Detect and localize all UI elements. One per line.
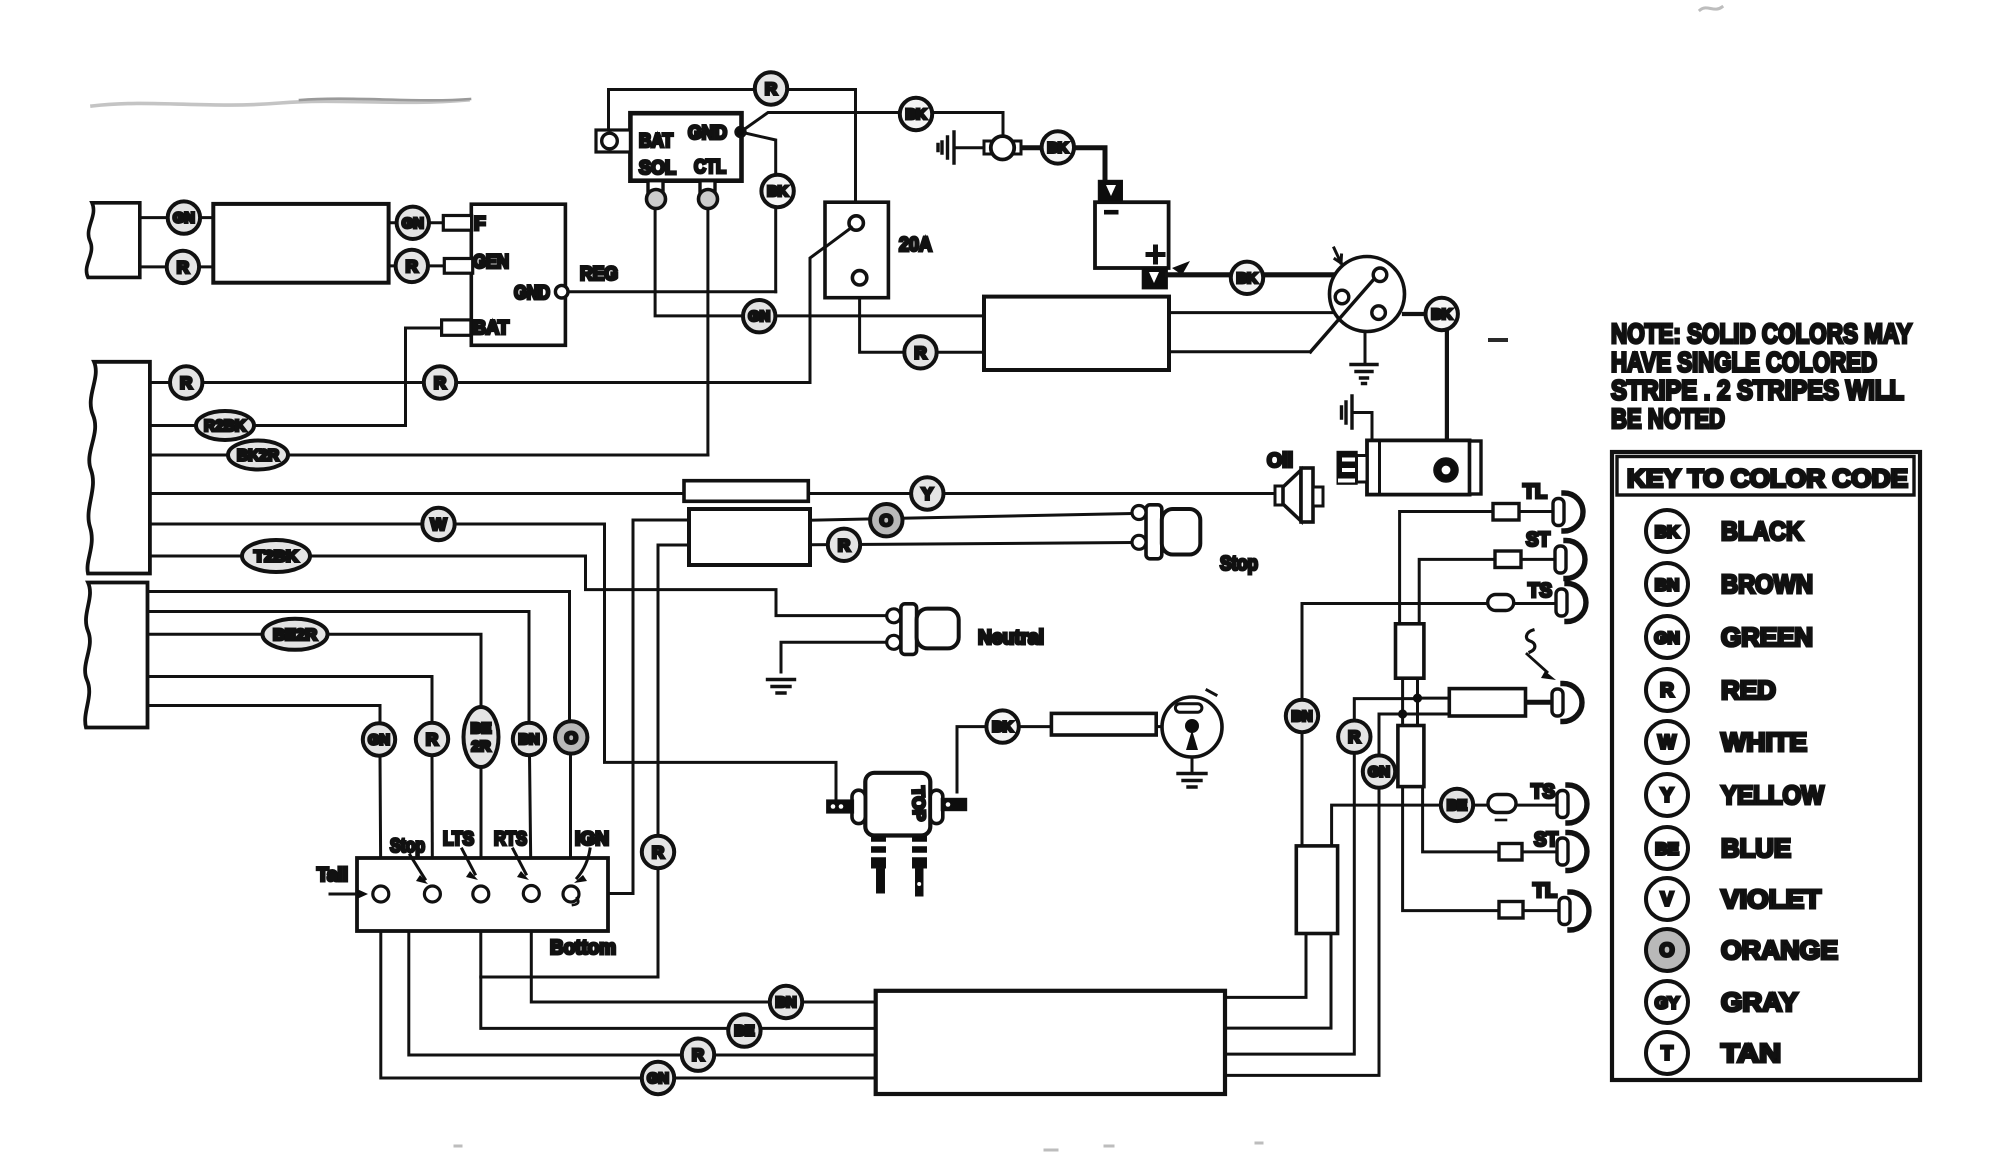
wire TS line from connector C3 top via BN [1302, 604, 1558, 847]
ground under neutral switch [768, 680, 795, 694]
svg-text:R: R [180, 374, 192, 393]
svg-text:BE: BE [471, 720, 492, 737]
svg-text:GND: GND [514, 283, 550, 304]
wire harness box right 3 via R to junction [1225, 699, 1418, 1055]
svg-text:BK2R: BK2R [237, 448, 279, 465]
ground under key switch [1178, 774, 1206, 788]
legend box KEY TO COLOR CODE [1612, 452, 1920, 1080]
wire label R column [416, 723, 448, 755]
inline connector ST top [1495, 551, 1521, 568]
wire label T2BK [242, 540, 310, 572]
svg-text:BN: BN [1292, 709, 1313, 725]
svg-text:BE: BE [1655, 840, 1679, 859]
svg-text:BK: BK [1655, 523, 1680, 542]
wire BE2R feed from connector J2 [148, 634, 482, 708]
legend entry BLUE [1646, 827, 1688, 869]
ground (vertical bars) at starter [1342, 396, 1353, 428]
svg-text:VIOLET: VIOLET [1721, 884, 1821, 914]
wire ignition to ground [1364, 332, 1367, 365]
TOP switch left post [852, 790, 865, 823]
wire label R solenoid loop [755, 72, 787, 104]
wire label BN column [513, 723, 545, 755]
ballast resistor [1051, 713, 1156, 735]
wire GN circle to Tail terminal [379, 756, 383, 887]
svg-text:WHITE: WHITE [1721, 727, 1807, 757]
svg-text:BE: BE [1447, 798, 1467, 814]
svg-text:GY: GY [1655, 994, 1680, 1013]
solenoid SOL stud [648, 181, 663, 194]
svg-text:YELLOW: YELLOW [1721, 780, 1824, 810]
lamp ST bottom [1568, 833, 1587, 871]
wire label GN right [1363, 755, 1395, 787]
regulator GND terminal [555, 285, 568, 298]
svg-text:Oil: Oil [1267, 450, 1293, 472]
svg-text:BN: BN [519, 732, 540, 748]
wire LTS terminal to BE bottom line [481, 902, 876, 1028]
legend entry YELLOW [1646, 774, 1688, 816]
ignition switch terminal 2 [1335, 290, 1349, 304]
arrow at battery positive [1172, 261, 1190, 275]
ignition switch terminal 1 [1373, 268, 1387, 282]
svg-text:NOTE: SOLID COLORS MAY: NOTE: SOLID COLORS MAY [1611, 318, 1912, 349]
generator box [213, 204, 388, 283]
inline connector TL bottom [1499, 902, 1523, 919]
wire horn to ground [954, 146, 990, 149]
legend entry TAN [1646, 1032, 1688, 1074]
wire neutral switch to ground [781, 642, 887, 672]
svg-text:Y: Y [1661, 786, 1674, 807]
svg-text:W: W [1658, 733, 1676, 754]
wire label BE2R column [464, 707, 499, 767]
wire label BK horn [1042, 131, 1074, 163]
svg-text:GN: GN [173, 211, 195, 227]
svg-text:ST: ST [1534, 829, 1558, 851]
svg-text:R: R [434, 374, 446, 393]
terminal IGN [563, 886, 579, 902]
wire label BK2R [228, 441, 288, 470]
wire light switch to stop switch (O) [810, 514, 1131, 521]
svg-text:BK: BK [992, 720, 1013, 736]
wire label BK ignition [1426, 298, 1458, 330]
svg-text:BAT: BAT [639, 131, 673, 152]
svg-text:RTS: RTS [494, 829, 527, 850]
legend entry RED [1646, 669, 1688, 711]
wire starter ground lead [1352, 413, 1372, 441]
wire label R right [1338, 721, 1370, 753]
wire label O lights [870, 504, 902, 536]
svg-text:BE: BE [734, 1024, 754, 1040]
wire R harness line to fuse blade [150, 228, 852, 383]
wire TL line top [1400, 512, 1558, 624]
terminal Tail [373, 886, 389, 902]
svg-text:R: R [177, 258, 189, 277]
starter brush block [1337, 451, 1357, 484]
svg-text:R: R [914, 343, 926, 362]
svg-text:BAT: BAT [473, 318, 509, 339]
lamp horn indicator [1563, 684, 1582, 722]
svg-text:O: O [1660, 941, 1675, 962]
svg-text:R: R [406, 257, 418, 276]
wire battery positive to ignition switch (BK thick) [1167, 272, 1376, 277]
svg-text:T2BK: T2BK [254, 549, 298, 566]
svg-text:BLACK: BLACK [1721, 516, 1803, 546]
starter solenoid box [630, 113, 741, 181]
inline connector TS top [1488, 595, 1514, 611]
flasher unit [1449, 689, 1525, 716]
svg-text:R2BK: R2BK [204, 418, 246, 435]
wire light switch top-left to IGN terminal [580, 520, 689, 894]
junction dot 2 [1398, 709, 1407, 718]
arrow at ignition switch [1334, 248, 1342, 263]
regulator pin BAT pad [442, 320, 471, 335]
wire RTS terminal to BN bottom line [531, 901, 875, 1002]
connector J2 harness plug [85, 583, 147, 728]
ignition switch terminal 3 [1372, 306, 1386, 320]
lamp TL bottom [1570, 892, 1589, 930]
svg-text:KEY TO COLOR CODE: KEY TO COLOR CODE [1627, 465, 1908, 493]
junction dot 1 [1413, 694, 1422, 703]
starter motor body [1367, 440, 1470, 494]
wire label BN bottom [770, 986, 802, 1018]
wire label GN bottom [642, 1062, 674, 1094]
svg-text:BE2R: BE2R [273, 627, 317, 644]
legend entry ORANGE [1646, 929, 1688, 971]
svg-text:O: O [880, 511, 893, 530]
wire Stop terminal to R bottom line [409, 902, 876, 1055]
wire regulator BAT to R2BK [406, 328, 443, 426]
wire label BK reg drop [761, 175, 793, 207]
regulator pin GEN pad [444, 259, 472, 274]
wire BN circle to RTS terminal [530, 755, 532, 886]
wire junction to flasher [1403, 698, 1450, 714]
svg-text:IGN: IGN [575, 829, 609, 850]
svg-text:ORANGE: ORANGE [1721, 935, 1838, 965]
connector C3 [1296, 846, 1337, 934]
wire horn to battery negative (BK thick) [1014, 148, 1105, 181]
wire ballast to key switch [1156, 725, 1162, 728]
wire harness box right 4 via GN to junction [1225, 714, 1403, 1075]
terminal Stop [424, 886, 440, 902]
svg-text:BK: BK [1047, 140, 1068, 156]
svg-text:T: T [1661, 1044, 1673, 1065]
wire flasher to horn lamp [1526, 700, 1556, 705]
TOP switch right post [930, 790, 943, 823]
svg-text:GN: GN [1368, 765, 1390, 781]
wire label GN pigtail [168, 201, 200, 233]
ignition switch body [1330, 257, 1405, 332]
wire solenoid GND to horn (BK) [741, 113, 1004, 138]
wire label R lights [828, 529, 860, 561]
legend entry WHITE [1646, 721, 1688, 763]
svg-text:GN: GN [402, 216, 424, 232]
wire SOL terminal down and GN line to coil box [655, 208, 984, 316]
wire CTL terminal down to BK2R [706, 208, 709, 455]
wire GN feed from connector J2 [148, 706, 381, 724]
wire label BE bottom [728, 1014, 760, 1046]
wire label BK battery [1231, 262, 1263, 294]
wire key switch to ground [1191, 757, 1194, 772]
wire label BE right [1441, 789, 1473, 821]
legend entry BLACK [1646, 510, 1688, 552]
wire fuse bottom to coil box (R) [860, 285, 984, 353]
wire label O column [555, 721, 587, 753]
svg-text:GN: GN [1654, 629, 1680, 648]
svg-text:BN: BN [776, 995, 797, 1011]
stop lamp switch [1146, 505, 1162, 559]
svg-text:GEN: GEN [473, 252, 509, 273]
connector J1 harness plug [87, 362, 149, 574]
battery positive terminal [1142, 268, 1167, 289]
wire label BE2R harness [263, 619, 328, 650]
wire label GN sol line [743, 300, 775, 332]
battery [1095, 202, 1169, 268]
terminal block (Bottom) [357, 858, 608, 931]
svg-text:STRIPE . 2 STRIPES WILL: STRIPE . 2 STRIPES WILL [1611, 375, 1904, 406]
battery plus mark [1148, 247, 1163, 262]
svg-text:GN: GN [647, 1071, 669, 1087]
inline connector TL top [1493, 504, 1519, 521]
wire ST line top [1419, 559, 1560, 623]
scan artifact dots bottom [455, 1143, 1262, 1150]
TOP switch lower stud left [872, 836, 886, 869]
wire R circle to Stop terminal [431, 755, 434, 887]
svg-text:Bottom: Bottom [550, 937, 616, 959]
svg-text:GN: GN [368, 733, 390, 749]
svg-text:BE NOTED: BE NOTED [1611, 403, 1725, 434]
svg-text:TL: TL [1533, 880, 1557, 902]
svg-text:BROWN: BROWN [1721, 569, 1813, 599]
wire solenoid GND to REG drop (BK) [741, 132, 776, 292]
svg-text:BK: BK [1237, 271, 1258, 287]
wire label BN right [1286, 700, 1318, 732]
svg-text:TAN: TAN [1721, 1038, 1781, 1068]
wire TOP switch to BK to ballast [957, 727, 1051, 792]
lamp TS top [1567, 584, 1586, 622]
wire label R harness2 [424, 366, 456, 398]
wire coil box to ignition bottom terminal [1169, 311, 1372, 314]
starter terminal nut [1434, 458, 1458, 482]
legend entry GRAY [1646, 981, 1688, 1023]
svg-text:2R: 2R [471, 738, 490, 755]
arrow to horn lamp [1527, 654, 1547, 672]
svg-text:HAVE SINGLE COLORED: HAVE SINGLE COLORED [1611, 346, 1877, 377]
solenoid CTL stud [700, 181, 715, 194]
wire generator to regulator GEN (R) [388, 264, 445, 267]
wire W line to TOP switch [150, 524, 836, 800]
fuse top terminal [849, 216, 863, 230]
svg-text:TS: TS [1528, 580, 1552, 602]
wire label R bottom [682, 1039, 714, 1071]
svg-text:Tail: Tail [317, 865, 348, 886]
neutral switch [901, 604, 917, 655]
svg-text:BN: BN [1655, 576, 1680, 595]
wire light switch bottom-left via R to LTS drop [481, 545, 689, 977]
svg-text:Neutral: Neutral [978, 627, 1044, 649]
wire label R2BK [196, 411, 254, 440]
ignition coil box [984, 297, 1169, 370]
wire REG from regulator GND to solenoid BK drop [568, 290, 776, 293]
fuse blade inside box [826, 228, 852, 247]
wire solenoid R loop to fuse [609, 90, 856, 218]
wire label W harness [422, 508, 454, 540]
wire O feed from connector J2 [148, 592, 570, 723]
legend entry VIOLET [1646, 878, 1688, 920]
wire connector C2 to TL lamp bottom [1403, 787, 1560, 911]
wire label BK kill [986, 710, 1018, 742]
legend entry BROWN [1646, 563, 1688, 605]
svg-text:R: R [1660, 681, 1674, 702]
wire BN feed from connector J2 [148, 612, 530, 725]
svg-text:Stop: Stop [1220, 553, 1258, 575]
wire label R fuse line [904, 336, 936, 368]
solenoid GND terminal dot [736, 127, 746, 137]
svg-text:R: R [426, 730, 438, 749]
svg-text:TL: TL [1523, 481, 1547, 503]
wire R feed from connector J2 [148, 677, 433, 724]
svg-text:R: R [765, 80, 777, 99]
scan artifact squiggle top-left [92, 100, 468, 106]
svg-text:RED: RED [1721, 675, 1776, 705]
svg-text:R: R [652, 843, 664, 862]
wire label R ignition feed [642, 836, 674, 868]
wire light switch to stop switch (R) [810, 543, 1131, 545]
squiggle mark above horn [1526, 630, 1534, 652]
svg-text:GN: GN [748, 309, 770, 325]
battery minus mark [1104, 210, 1119, 215]
wire Y line to oil sender [150, 492, 1275, 495]
wire Tail terminal to GN bottom line [381, 902, 876, 1078]
svg-text:GREEN: GREEN [1721, 622, 1813, 652]
wire harness box right 1 to connector C3 [1225, 934, 1306, 997]
wire label R pigtail [167, 251, 199, 283]
svg-text:BK: BK [906, 107, 927, 123]
lamp TS bottom [1568, 785, 1587, 823]
regulator box [471, 204, 565, 345]
horn [984, 141, 992, 154]
terminal RTS [523, 886, 539, 902]
lamp TL top [1564, 493, 1583, 531]
lamp ST top [1566, 541, 1585, 579]
inline connector ST bottom [1499, 844, 1522, 861]
regulator pin F pad [443, 216, 471, 231]
wire generator pigtail R [139, 265, 214, 268]
key switch [1162, 697, 1222, 757]
svg-text:REG: REG [580, 264, 618, 285]
fuse breaker 20A box [825, 202, 888, 298]
svg-text:BK: BK [1431, 307, 1452, 323]
svg-text:BLUE: BLUE [1721, 833, 1791, 863]
wire coil box to ignition blade [1169, 350, 1311, 353]
wire connector C2 to ST lamp bottom [1423, 787, 1560, 852]
svg-text:GND: GND [688, 123, 727, 144]
connector P1 generator pigtail [86, 203, 139, 278]
bottom harness box [876, 991, 1225, 1094]
solenoid mounting lug [596, 130, 630, 152]
terminal LTS [473, 886, 489, 902]
wire label Y harness [911, 477, 943, 509]
svg-text:20A: 20A [899, 234, 932, 256]
TOP switch lower stud right [913, 836, 927, 869]
wire T2BK line to neutral switch [150, 556, 887, 616]
svg-text:TOP: TOP [908, 786, 928, 821]
battery negative terminal [1098, 180, 1122, 202]
oil sender [1275, 486, 1283, 505]
wire label GN column [363, 723, 395, 755]
svg-text:Stop: Stop [390, 836, 425, 857]
wire O circle to IGN terminal [569, 753, 572, 887]
inline connector TS bottom [1488, 795, 1516, 813]
ground under ignition switch [1351, 365, 1377, 384]
wire ignition to starter stud (BK) [1404, 314, 1447, 452]
wire label BK solenoid gnd [900, 98, 932, 130]
legend entry GREEN [1646, 616, 1688, 658]
wire connector C1 to junctions [1403, 678, 1418, 725]
ground (vertical bars) at horn [938, 132, 954, 163]
svg-text:O: O [565, 728, 578, 747]
connector C2 [1398, 726, 1424, 787]
wire label R regulator [396, 250, 428, 282]
TOP switch body [865, 773, 930, 836]
svg-text:CTL: CTL [694, 157, 726, 178]
inline connector on Y line [684, 481, 808, 502]
svg-text:GRAY: GRAY [1721, 987, 1798, 1017]
svg-text:R: R [692, 1046, 704, 1065]
svg-text:SOL: SOL [639, 158, 676, 179]
wire BK2R line [150, 454, 708, 457]
svg-text:R: R [838, 536, 850, 555]
wire generator pigtail GN [139, 216, 214, 219]
wire label GN regulator [397, 207, 429, 239]
starter end bracket [1470, 441, 1481, 494]
wire generator to regulator F (GN) [388, 221, 444, 224]
svg-text:TS: TS [1531, 781, 1555, 803]
svg-text:Y: Y [922, 485, 934, 504]
wire R2BK line [150, 424, 406, 427]
svg-text:R: R [1348, 728, 1360, 747]
scan artifact mark top-right [1700, 7, 1722, 10]
svg-text:F: F [474, 214, 486, 235]
svg-text:ST: ST [1526, 529, 1550, 551]
scan artifact dash near note [1490, 338, 1506, 342]
wire harness box right 2 to connector C3 [1225, 934, 1331, 1028]
wire BE TS lamp line from connector C3 [1332, 805, 1558, 846]
fuse bottom terminal [852, 271, 866, 285]
ignition switch blade [1311, 271, 1382, 352]
wire label R harness1 [170, 366, 202, 398]
svg-text:W: W [430, 515, 447, 534]
light switch box [689, 509, 810, 565]
wire BE2R oval to LTS terminal [480, 767, 483, 887]
svg-text:BK: BK [767, 184, 788, 200]
svg-text:V: V [1661, 890, 1674, 911]
connector C1 [1396, 624, 1424, 678]
svg-text:LTS: LTS [443, 829, 474, 850]
